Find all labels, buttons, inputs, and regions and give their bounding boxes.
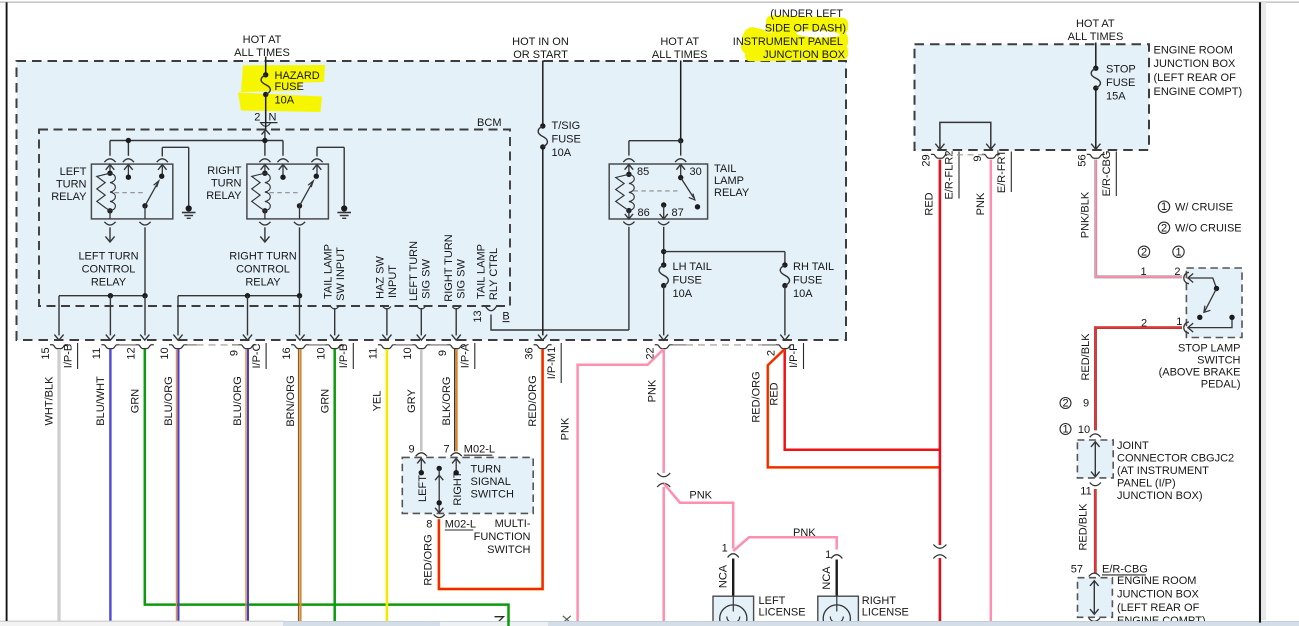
svg-text:RELAY: RELAY bbox=[245, 277, 281, 289]
svg-text:7: 7 bbox=[443, 444, 449, 456]
internal jumper wires to exits 29 and 9 bbox=[940, 122, 991, 148]
svg-text:PEDAL): PEDAL) bbox=[1201, 379, 1241, 391]
svg-text:TURN: TURN bbox=[211, 178, 242, 190]
wire GRN exit10 tail sw bbox=[333, 349, 336, 621]
svg-text:RED: RED bbox=[923, 192, 935, 215]
svg-text:RED/ORG: RED/ORG bbox=[527, 375, 539, 426]
wire stop fuse to exit 56 bbox=[1095, 88, 1097, 148]
wire RED/ORG exit2 branch bbox=[768, 350, 940, 468]
svg-text:M02-L: M02-L bbox=[464, 444, 495, 456]
svg-text:12: 12 bbox=[126, 347, 138, 359]
svg-text:W/ CRUISE: W/ CRUISE bbox=[1175, 202, 1233, 214]
svg-text:TAIL LAMP: TAIL LAMP bbox=[322, 244, 334, 299]
svg-text:BLU/ORG: BLU/ORG bbox=[163, 376, 175, 426]
relay K2 RIGHT TURN RELAY box bbox=[247, 164, 329, 219]
node bus-left-pin2 bbox=[126, 138, 131, 143]
svg-text:GRN: GRN bbox=[130, 389, 142, 414]
wire YEL bbox=[386, 349, 389, 621]
svg-text:SIDE OF DASH): SIDE OF DASH) bbox=[765, 23, 846, 35]
svg-text:CONTROL: CONTROL bbox=[82, 264, 136, 276]
svg-text:FUSE: FUSE bbox=[552, 134, 581, 146]
exit 9 E/R-FRT bbox=[982, 154, 1000, 158]
svg-text:OR START: OR START bbox=[513, 49, 568, 61]
svg-text:WHT/BLK: WHT/BLK bbox=[44, 376, 56, 426]
svg-text:PNK/BLK: PNK/BLK bbox=[1080, 191, 1092, 238]
exit pin 36 at x=542.6 bbox=[538, 335, 547, 341]
stop lamp switch box (dashed) bbox=[1186, 268, 1242, 338]
wire RED exit2 bbox=[785, 349, 940, 450]
svg-text:10: 10 bbox=[159, 347, 171, 359]
svg-text:HOT AT: HOT AT bbox=[1076, 18, 1115, 30]
wire hazard feed bbox=[265, 57, 267, 75]
relay K3 switch blade bbox=[678, 175, 683, 180]
wire BCM output bbox=[452, 307, 460, 310]
engine room junction box bottom (dashed) bbox=[1078, 578, 1113, 618]
relay K2 pin1 arrow bbox=[261, 165, 270, 170]
wire bus2 right outputs bbox=[178, 295, 300, 297]
wire stop fuse feed bbox=[1095, 43, 1097, 69]
svg-text:10A: 10A bbox=[673, 288, 693, 300]
exit pin 16 at x=300 bbox=[295, 335, 304, 341]
exit pin 12 at x=144.8 bbox=[140, 335, 149, 341]
svg-text:PANEL (I/P): PANEL (I/P) bbox=[1117, 477, 1176, 489]
svg-text:RED/ORG: RED/ORG bbox=[750, 371, 762, 422]
svg-text:INSTRUMENT PANEL: INSTRUMENT PANEL bbox=[733, 36, 843, 48]
node tail fuse bus bbox=[661, 249, 666, 254]
svg-text:36: 36 bbox=[523, 347, 535, 359]
svg-text:PNK: PNK bbox=[975, 192, 987, 215]
svg-text:RIGHT: RIGHT bbox=[452, 471, 464, 506]
svg-text:NCA: NCA bbox=[718, 564, 730, 588]
svg-text:(LEFT REAR OF: (LEFT REAR OF bbox=[1117, 602, 1200, 614]
relay K1 coil bbox=[107, 171, 112, 176]
svg-text:RELAY: RELAY bbox=[51, 191, 87, 203]
pin 9 connector at turn signal switch bbox=[416, 453, 427, 456]
svg-text:57: 57 bbox=[1071, 563, 1083, 575]
relay K1 pin1 arrow bbox=[106, 165, 115, 170]
connector arrow into BCM bbox=[262, 130, 270, 135]
svg-text:ALL TIMES: ALL TIMES bbox=[652, 49, 708, 61]
relay K1 pin3 arrow bbox=[158, 165, 167, 170]
svg-text:RED/BLK: RED/BLK bbox=[1080, 333, 1092, 381]
svg-text:PNK: PNK bbox=[646, 379, 658, 402]
exit 56 E/R-CBG bbox=[1087, 154, 1105, 158]
svg-text:9: 9 bbox=[408, 444, 414, 456]
wire GRN exit12 bbox=[145, 349, 509, 626]
connector link lines at exits bbox=[117, 344, 139, 346]
svg-text:FUSE: FUSE bbox=[793, 274, 822, 286]
exit pin 10 at x=178 bbox=[173, 335, 182, 341]
svg-text:RED/ORG: RED/ORG bbox=[422, 534, 434, 585]
page right edge line bbox=[1261, 2, 1266, 620]
svg-text:M02-L: M02-L bbox=[445, 518, 476, 530]
svg-text:LEFT TURN: LEFT TURN bbox=[408, 241, 420, 301]
svg-text:SW INPUT: SW INPUT bbox=[335, 247, 347, 301]
wire NCA right bbox=[836, 560, 838, 597]
wire K2 ground link bbox=[316, 147, 318, 156]
wire hazard fuse to BCM bbox=[265, 95, 267, 130]
svg-text:LH TAIL: LH TAIL bbox=[673, 261, 712, 273]
svg-text:RED: RED bbox=[769, 382, 781, 405]
svg-text:9: 9 bbox=[437, 350, 449, 356]
svg-text:LEFT: LEFT bbox=[417, 475, 429, 502]
svg-text:PNK: PNK bbox=[560, 417, 572, 440]
svg-text:1: 1 bbox=[722, 543, 728, 555]
svg-text:ENGINE ROOM: ENGINE ROOM bbox=[1117, 575, 1196, 587]
svg-text:LEFT TURN: LEFT TURN bbox=[78, 251, 138, 263]
wire RED/ORG exit36 to multifunction switch bbox=[439, 349, 543, 589]
svg-text:GRY: GRY bbox=[406, 389, 418, 413]
hazard fuse 10A bbox=[263, 72, 268, 77]
wire K2 switch down to bus bbox=[299, 227, 301, 295]
svg-text:PNK: PNK bbox=[689, 490, 712, 502]
svg-text:(LEFT REAR OF: (LEFT REAR OF bbox=[1154, 72, 1237, 84]
svg-text:BLK/ORG: BLK/ORG bbox=[441, 377, 453, 426]
wire BCM pin13 to tail lamp relay pin 86 bbox=[491, 315, 629, 331]
scrollbar band bbox=[0, 621, 1299, 626]
svg-text:ENGINE COMPT): ENGINE COMPT) bbox=[1154, 86, 1243, 98]
BCM module box (dashed) bbox=[39, 130, 510, 307]
relay K1 switch blade bbox=[142, 203, 147, 208]
svg-text:(ABOVE BRAKE: (ABOVE BRAKE bbox=[1159, 367, 1241, 379]
clipped x mark near pink wire bbox=[563, 616, 571, 623]
svg-text:1: 1 bbox=[1175, 246, 1181, 258]
svg-text:LEFT: LEFT bbox=[60, 166, 87, 178]
ground G2 bbox=[341, 205, 347, 211]
svg-text:(UNDER LEFT: (UNDER LEFT bbox=[770, 8, 843, 20]
svg-text:TAIL: TAIL bbox=[714, 163, 736, 175]
legend 2 W/O CRUISE bbox=[1158, 222, 1169, 233]
pin 8 connector bbox=[434, 514, 445, 517]
svg-text:1: 1 bbox=[825, 549, 831, 561]
svg-text:W/O CRUISE: W/O CRUISE bbox=[1175, 223, 1242, 235]
svg-text:RELAY: RELAY bbox=[91, 277, 127, 289]
svg-text:15A: 15A bbox=[1106, 91, 1126, 103]
svg-text:11: 11 bbox=[1080, 486, 1091, 498]
svg-text:HAZ SW: HAZ SW bbox=[375, 255, 387, 298]
svg-text:(AT INSTRUMENT: (AT INSTRUMENT bbox=[1117, 465, 1209, 477]
page top border line bbox=[0, 1, 1299, 3]
svg-text:ALL TIMES: ALL TIMES bbox=[1068, 31, 1124, 43]
wire BCM output bbox=[417, 307, 425, 310]
svg-text:FUSE: FUSE bbox=[1106, 77, 1135, 89]
svg-text:87: 87 bbox=[672, 207, 684, 219]
turn signal switch box (dashed) bbox=[402, 457, 533, 513]
svg-text:JUNCTION BOX): JUNCTION BOX) bbox=[1117, 490, 1203, 502]
green wire across band bbox=[507, 620, 510, 626]
BCM pin 13 connector bbox=[485, 306, 496, 311]
svg-text:RIGHT TURN: RIGHT TURN bbox=[229, 251, 296, 263]
wire BRN/ORG bbox=[298, 349, 300, 622]
wire PNK/BLK from exit 56 bbox=[1096, 160, 1182, 277]
svg-text:8: 8 bbox=[426, 518, 432, 530]
svg-text:2: 2 bbox=[1174, 266, 1180, 278]
node bus-fuse bbox=[262, 138, 267, 143]
inline connector on RED bbox=[933, 545, 946, 549]
svg-text:RIGHT: RIGHT bbox=[862, 595, 897, 607]
svg-text:56: 56 bbox=[1076, 154, 1088, 166]
svg-text:30: 30 bbox=[690, 166, 702, 178]
svg-text:SIGNAL: SIGNAL bbox=[471, 476, 511, 488]
wire PNK from exit 9 bbox=[990, 160, 993, 622]
relay K3 TAIL LAMP RELAY box bbox=[609, 164, 707, 219]
svg-text:I/P-A: I/P-A bbox=[460, 343, 472, 368]
svg-text:RIGHT: RIGHT bbox=[207, 165, 242, 177]
svg-text:2: 2 bbox=[254, 112, 260, 124]
svg-text:LICENSE: LICENSE bbox=[759, 607, 806, 619]
svg-text:I/P-B: I/P-B bbox=[338, 344, 350, 368]
svg-text:11: 11 bbox=[368, 348, 380, 359]
relay K2 switch contact bbox=[314, 174, 319, 179]
svg-text:I/P-C: I/P-C bbox=[251, 343, 263, 368]
exit pin 9 at x=456.2 bbox=[452, 335, 461, 341]
relay K3 switch contact 87 bbox=[695, 204, 700, 209]
svg-text:10: 10 bbox=[402, 347, 414, 359]
stop lamp switch internals bbox=[1189, 278, 1217, 288]
relay K3 pin 85 arrow bbox=[625, 165, 634, 170]
svg-text:SWITCH: SWITCH bbox=[471, 489, 514, 501]
exit 29 E/R-FLR2 bbox=[931, 154, 949, 158]
wire BCM output bbox=[331, 307, 339, 310]
exit pin 10 at x=334.7 bbox=[330, 335, 339, 341]
svg-text:16: 16 bbox=[281, 347, 293, 359]
svg-text:T/SIG: T/SIG bbox=[552, 120, 581, 132]
RH TAIL FUSE 10A bbox=[782, 262, 787, 267]
svg-text:I/P-B: I/P-B bbox=[62, 344, 74, 368]
relay K1 pin arcs top bbox=[104, 159, 115, 162]
svg-text:SWITCH: SWITCH bbox=[1197, 355, 1240, 367]
wire PNK to right license bbox=[733, 537, 837, 551]
turn signal switch right contact bbox=[452, 458, 460, 463]
svg-text:2: 2 bbox=[766, 350, 778, 356]
svg-text:BLU/WHT: BLU/WHT bbox=[95, 376, 107, 426]
relay K2 switch blade bbox=[297, 203, 302, 208]
svg-text:15: 15 bbox=[40, 347, 52, 359]
left license lamp bbox=[713, 596, 754, 626]
STOP FUSE 15A bbox=[1093, 66, 1098, 71]
svg-text:N: N bbox=[269, 112, 277, 124]
svg-text:10A: 10A bbox=[793, 288, 813, 300]
svg-text:9: 9 bbox=[972, 155, 984, 161]
relay K1 link dashed bbox=[115, 192, 145, 194]
svg-text:YEL: YEL bbox=[372, 391, 384, 412]
clipped arrow mark near green wire bbox=[495, 617, 504, 623]
svg-text:INPUT: INPUT bbox=[387, 265, 399, 298]
svg-text:13: 13 bbox=[472, 310, 484, 322]
turn signal switch left contact bbox=[417, 458, 425, 463]
svg-text:ENGINE ROOM: ENGINE ROOM bbox=[1154, 44, 1233, 56]
joint connector arrow bbox=[1094, 443, 1096, 477]
svg-text:9: 9 bbox=[228, 350, 240, 356]
exit pin 22 at x=663.7 bbox=[659, 335, 668, 341]
wire RH fuse to exit 2 bbox=[784, 286, 786, 336]
svg-text:E/R-CBG: E/R-CBG bbox=[1101, 151, 1113, 197]
wire BLK/ORG bbox=[454, 349, 456, 451]
wire NCA left bbox=[732, 559, 734, 597]
wire pin87 to tail fuses bbox=[663, 227, 665, 265]
relay K3 pin arcs top bbox=[623, 159, 634, 162]
wire BLU/ORG exit9 bbox=[245, 349, 247, 621]
yellow highlight hazard fuse label bbox=[241, 65, 325, 92]
svg-text:85: 85 bbox=[637, 166, 649, 178]
svg-text:HOT IN ON: HOT IN ON bbox=[512, 36, 569, 48]
svg-text:MULTI-: MULTI- bbox=[495, 518, 531, 530]
wire K1 switch down to bus bbox=[144, 227, 146, 295]
svg-text:LICENSE: LICENSE bbox=[862, 607, 909, 619]
svg-text:PNK: PNK bbox=[793, 527, 816, 539]
relay K2 pin arcs top bbox=[259, 159, 270, 162]
circled 2 above stop lamp switch bbox=[1138, 246, 1149, 257]
svg-text:SIG SW: SIG SW bbox=[456, 259, 468, 299]
svg-text:JUNCTION BOX: JUNCTION BOX bbox=[763, 49, 846, 61]
svg-text:RH TAIL: RH TAIL bbox=[793, 261, 834, 273]
svg-text:RLY CTRL: RLY CTRL bbox=[488, 248, 500, 300]
svg-text:I/P-F: I/P-F bbox=[788, 344, 800, 368]
svg-text:10: 10 bbox=[316, 347, 328, 359]
wire bus1 left outputs bbox=[59, 295, 145, 297]
svg-text:2: 2 bbox=[1141, 246, 1147, 258]
wire PNK exit22 main bbox=[662, 349, 665, 473]
bottom box arrow bbox=[1093, 582, 1095, 614]
wire BLU/ORG exit10 bbox=[175, 349, 177, 621]
inline connector on PNK bbox=[657, 473, 670, 477]
svg-text:RELAY: RELAY bbox=[206, 190, 242, 202]
exit pin 11 at x=386.9 bbox=[382, 335, 391, 341]
svg-text:86: 86 bbox=[638, 207, 650, 219]
exit pin 11 at x=110.4 bbox=[106, 335, 115, 341]
wire HOT AT ALL TIMES feed to tail relay bbox=[680, 61, 682, 141]
relay K3 pin 30 arrow bbox=[676, 165, 685, 170]
svg-text:10: 10 bbox=[1078, 424, 1090, 436]
svg-text:FUNCTION: FUNCTION bbox=[474, 531, 531, 543]
svg-text:E/R-FRT: E/R-FRT bbox=[996, 150, 1008, 193]
node tail relay feed bbox=[678, 138, 683, 143]
svg-text:TURN: TURN bbox=[56, 179, 87, 191]
svg-text:TURN: TURN bbox=[471, 464, 502, 476]
wire relay supply bus bbox=[110, 140, 283, 142]
wire RED/BLK from stop lamp switch bbox=[1096, 328, 1183, 431]
svg-text:B: B bbox=[502, 311, 509, 323]
joint connector arc bottom bbox=[1090, 483, 1101, 486]
relay K3 pin 87 out bbox=[661, 202, 666, 207]
exit pin 2 at x=784.9 bbox=[780, 335, 789, 341]
svg-text:RELAY: RELAY bbox=[714, 187, 750, 199]
engine room junction box top-right (dashed) bbox=[915, 44, 1150, 150]
relay K3 pin 86 out bbox=[628, 211, 630, 219]
svg-text:29: 29 bbox=[921, 154, 933, 166]
svg-text:ALL TIMES: ALL TIMES bbox=[234, 47, 290, 59]
stop lamp switch pin 2 arc bbox=[1184, 272, 1189, 283]
wire PNK branch to license lamps bbox=[664, 484, 734, 549]
page left edge line bbox=[6, 2, 8, 621]
stop lamp switch pin 1 arc bbox=[1184, 322, 1189, 333]
svg-text:10A: 10A bbox=[552, 147, 572, 159]
svg-text:LAMP: LAMP bbox=[714, 175, 744, 187]
relay K2 pin3 arrow bbox=[313, 165, 322, 170]
exit pin 10 at x=421.3 bbox=[417, 335, 426, 341]
svg-text:I/P-M1: I/P-M1 bbox=[546, 347, 558, 379]
svg-text:TAIL LAMP: TAIL LAMP bbox=[475, 244, 487, 299]
svg-text:STOP LAMP: STOP LAMP bbox=[1178, 343, 1241, 355]
LH TAIL FUSE 10A bbox=[661, 262, 666, 267]
svg-text:RIGHT TURN: RIGHT TURN bbox=[443, 234, 455, 301]
svg-text:CONTROL: CONTROL bbox=[236, 264, 290, 276]
relay K2 pin2 arrow and stub bbox=[279, 165, 288, 170]
T/SIG fuse 10A bbox=[540, 123, 545, 128]
relay K2 coil bbox=[262, 171, 267, 176]
svg-text:10A: 10A bbox=[275, 94, 295, 106]
svg-text:JUNCTION BOX: JUNCTION BOX bbox=[1154, 58, 1237, 70]
wire HOT IN ON feed bbox=[542, 61, 544, 127]
turn signal switch wiper bbox=[437, 466, 442, 471]
wire K1 ground link bbox=[161, 147, 163, 156]
yellow highlight instrument panel junction box label bbox=[739, 15, 848, 61]
pin 7 connector at turn signal switch bbox=[451, 453, 462, 456]
relay K3 link dashed bbox=[634, 190, 681, 192]
svg-text:11: 11 bbox=[91, 348, 103, 359]
svg-text:2: 2 bbox=[1062, 397, 1068, 409]
svg-text:FUSE: FUSE bbox=[673, 274, 702, 286]
wire LH fuse to exit 22 bbox=[663, 286, 665, 336]
svg-text:FUSE: FUSE bbox=[275, 81, 304, 93]
svg-text:LEFT: LEFT bbox=[759, 595, 786, 607]
wire RED from exit 29 bbox=[939, 160, 942, 546]
svg-text:GRN: GRN bbox=[319, 389, 331, 414]
exit pin 15 at x=59 bbox=[54, 335, 63, 341]
svg-text:CONNECTOR CBGJC2: CONNECTOR CBGJC2 bbox=[1117, 452, 1234, 464]
wire BLU/WHT bbox=[109, 349, 111, 621]
svg-text:E/R-FLR2: E/R-FLR2 bbox=[944, 151, 956, 200]
svg-text:1: 1 bbox=[1062, 423, 1068, 435]
exit pin 9 at x=247.5 bbox=[243, 335, 252, 341]
svg-text:JUNCTION BOX: JUNCTION BOX bbox=[1117, 589, 1200, 601]
svg-text:BRN/ORG: BRN/ORG bbox=[285, 375, 297, 426]
wire GRY bbox=[420, 349, 423, 451]
relay K1 pin2 arrow and stub bbox=[124, 165, 133, 170]
joint connector CBGJC2 arc top bbox=[1090, 434, 1101, 437]
circled 1 above stop lamp switch bbox=[1173, 246, 1184, 257]
wire WHT/BLK bbox=[58, 349, 61, 621]
svg-text:BLU/ORG: BLU/ORG bbox=[232, 376, 244, 426]
relay K1 LEFT TURN RELAY box bbox=[91, 164, 172, 219]
svg-text:HOT AT: HOT AT bbox=[243, 34, 282, 46]
svg-text:JOINT: JOINT bbox=[1117, 440, 1149, 452]
svg-text:RED/BLK: RED/BLK bbox=[1077, 503, 1089, 551]
wire PNK branch to I/P-M area bbox=[578, 349, 664, 621]
svg-text:1: 1 bbox=[1161, 201, 1167, 213]
relay K2 link dashed bbox=[269, 192, 298, 194]
svg-text:SIG SW: SIG SW bbox=[420, 259, 432, 299]
relay K2 bottom pins bbox=[264, 211, 266, 219]
svg-text:E/R-CBG: E/R-CBG bbox=[1102, 563, 1148, 575]
svg-text:9: 9 bbox=[1083, 398, 1089, 410]
wire RED/BLK lower bbox=[1094, 489, 1097, 573]
svg-text:2: 2 bbox=[1161, 222, 1167, 234]
svg-text:SWITCH: SWITCH bbox=[487, 544, 530, 556]
circled 1 pin 10 bbox=[1060, 424, 1071, 435]
wire K1 coil output arrow bbox=[109, 227, 111, 240]
svg-text:STOP: STOP bbox=[1106, 64, 1136, 76]
svg-text:NCA: NCA bbox=[821, 566, 833, 590]
circled 2 pin 9 bbox=[1060, 398, 1071, 409]
relay K1 switch contact bbox=[159, 174, 164, 179]
legend 1 W/ CRUISE bbox=[1158, 201, 1169, 212]
relay K1 bottom pins bbox=[109, 211, 111, 219]
svg-text:HOT AT: HOT AT bbox=[660, 36, 699, 48]
wire BCM output bbox=[383, 307, 391, 310]
right license lamp bbox=[818, 596, 859, 626]
wire K2 coil output arrow bbox=[264, 227, 266, 240]
